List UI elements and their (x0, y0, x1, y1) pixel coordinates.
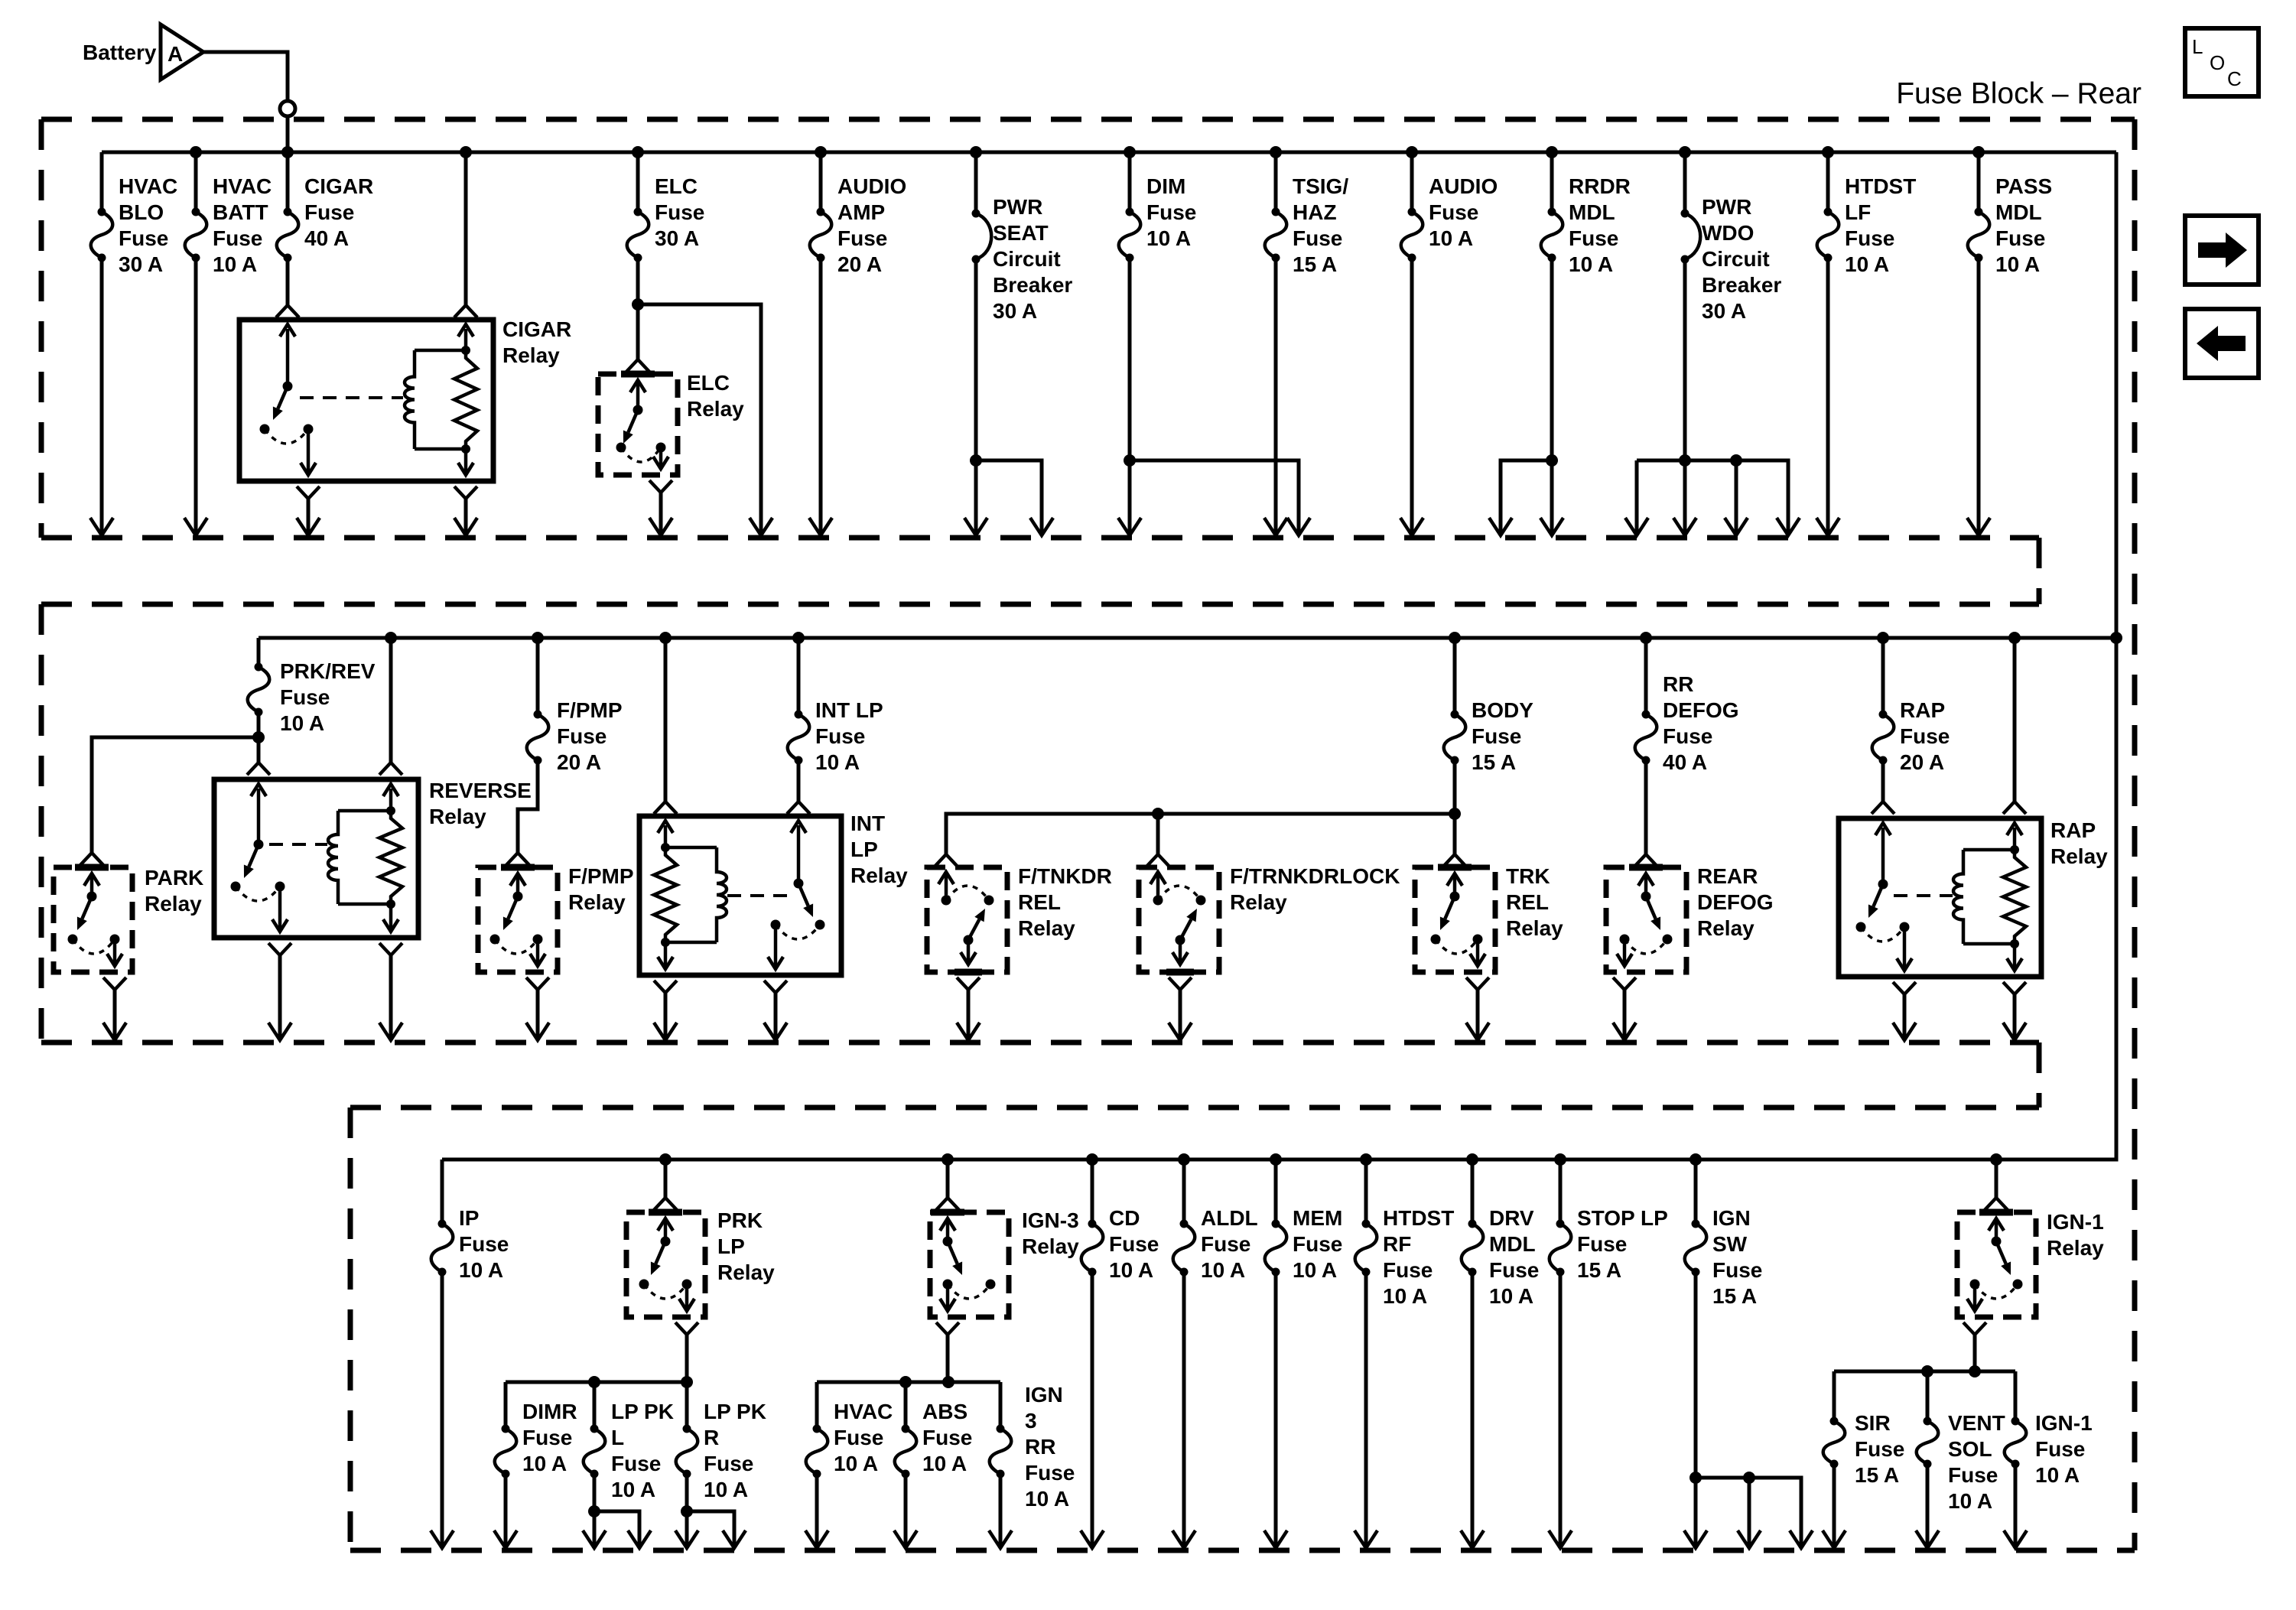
svg-text:15 A: 15 A (1577, 1258, 1621, 1282)
wire ELC branch to output (638, 304, 772, 535)
svg-text:Relay: Relay (429, 805, 486, 828)
svg-text:VENT: VENT (1948, 1411, 2005, 1435)
fuse DIM 10A (1118, 152, 1196, 535)
svg-text:MDL: MDL (1569, 200, 1615, 224)
wire PARK relay feed (80, 737, 259, 865)
svg-text:10 A: 10 A (815, 750, 860, 774)
svg-text:10 A: 10 A (1569, 252, 1613, 276)
svg-text:10 A: 10 A (1109, 1258, 1153, 1282)
fuse block border: step row1-row2 (2037, 538, 2042, 604)
circuit breaker PWR WDO 30A (1673, 152, 1781, 535)
svg-text:Fuse: Fuse (1293, 226, 1342, 250)
fuse BODY 15A (1444, 638, 1533, 854)
svg-text:HVAC: HVAC (119, 174, 177, 198)
wire REVERSE relay output left (268, 943, 291, 1040)
fuse HTDST LF 10A (1816, 152, 1916, 535)
svg-text:10 A: 10 A (1948, 1489, 1992, 1513)
svg-text:RRDR: RRDR (1569, 174, 1631, 198)
wire RAP relay output left (1893, 982, 1916, 1040)
svg-text:Relay: Relay (568, 890, 626, 914)
wire CIGAR relay output left (297, 486, 320, 535)
wire F/TNKDR REL output (957, 977, 980, 1040)
wire REVERSE relay right pin feed (379, 638, 402, 775)
wire CIGAR relay output right (454, 486, 477, 535)
svg-text:Fuse: Fuse (1146, 200, 1196, 224)
svg-text:HAZ: HAZ (1293, 200, 1337, 224)
svg-text:Relay: Relay (502, 343, 560, 367)
svg-text:3: 3 (1025, 1409, 1037, 1433)
legend next-page arrow (2185, 216, 2259, 285)
fuse ELC 30A (627, 152, 705, 359)
svg-text:Fuse: Fuse (1383, 1258, 1433, 1282)
svg-text:MDL: MDL (1995, 200, 2042, 224)
fuse block border: row1 bottom edge (41, 535, 2039, 541)
svg-text:F/TRNKDRLOCK: F/TRNKDRLOCK (1230, 864, 1400, 888)
svg-text:Fuse: Fuse (611, 1452, 661, 1475)
relay CIGAR (239, 317, 571, 481)
fuse block border: row1 left edge (39, 119, 44, 538)
fuse RRDR MDL 10A (1540, 152, 1631, 535)
svg-text:L: L (2192, 35, 2203, 58)
svg-text:Fuse: Fuse (1577, 1232, 1627, 1256)
svg-text:C: C (2227, 67, 2242, 90)
svg-text:CIGAR: CIGAR (304, 174, 373, 198)
fuse block border: row2 top edge (41, 602, 2039, 607)
svg-text:RAP: RAP (2050, 818, 2096, 842)
svg-text:10 A: 10 A (2035, 1463, 2080, 1487)
svg-text:Breaker: Breaker (993, 273, 1072, 297)
wire INT LP relay output left (654, 981, 677, 1040)
svg-text:PRK/REV: PRK/REV (280, 659, 376, 683)
svg-text:10 A: 10 A (1489, 1284, 1533, 1308)
svg-text:10 A: 10 A (213, 252, 257, 276)
svg-text:MDL: MDL (1489, 1232, 1536, 1256)
circuit breaker PWR SEAT 30A (964, 152, 1072, 535)
svg-text:REVERSE: REVERSE (429, 779, 532, 802)
svg-text:Fuse: Fuse (2035, 1437, 2085, 1461)
svg-text:10 A: 10 A (459, 1258, 503, 1282)
svg-text:Relay: Relay (2047, 1236, 2104, 1260)
svg-text:LP: LP (717, 1234, 745, 1258)
wire F/TRNKDRLOCK feed (1146, 814, 1169, 867)
svg-text:10 A: 10 A (280, 711, 324, 735)
svg-text:SOL: SOL (1948, 1437, 1992, 1461)
svg-text:Battery: Battery (83, 41, 157, 64)
fuse block border: row2 bottom edge (41, 1040, 2039, 1046)
fuse block border: row3 bottom edge (350, 1548, 2135, 1553)
relay PARK (54, 866, 203, 972)
legend LOC box (2185, 28, 2259, 96)
wire RRDR MDL branch (1489, 460, 1552, 535)
svg-text:10 A: 10 A (922, 1452, 967, 1475)
wire IGN SW branches (1696, 1472, 1813, 1548)
svg-text:10 A: 10 A (522, 1452, 567, 1475)
wire REAR DEFOG output (1613, 977, 1636, 1040)
wire IGN-3 output to ignition fuses (936, 1322, 959, 1382)
svg-text:30 A: 30 A (119, 252, 163, 276)
wire PRK LP output to lamp fuses (675, 1322, 698, 1382)
svg-text:LP: LP (850, 838, 878, 861)
svg-text:TSIG/: TSIG/ (1293, 174, 1348, 198)
svg-text:10 A: 10 A (1383, 1284, 1427, 1308)
svg-text:BLO: BLO (119, 200, 164, 224)
wire REVERSE relay output right (379, 943, 402, 1040)
svg-text:Fuse: Fuse (1489, 1258, 1539, 1282)
svg-text:MEM: MEM (1293, 1206, 1342, 1230)
svg-text:10 A: 10 A (834, 1452, 878, 1475)
wire BODY distribution to door relays (935, 808, 1455, 867)
svg-text:DEFOG: DEFOG (1697, 890, 1774, 914)
wire REVERSE relay feed (247, 763, 270, 775)
svg-text:INT: INT (850, 812, 885, 835)
fuse PASS MDL 10A (1967, 152, 2052, 535)
relay INT LP (639, 812, 908, 975)
wire RAP relay output right (2003, 982, 2026, 1040)
relay ELC (598, 359, 744, 475)
wire ignition distribution (817, 1376, 1000, 1388)
fuse VENT SOL 10A (1916, 1371, 2005, 1548)
svg-text:AUDIO: AUDIO (837, 174, 906, 198)
svg-text:Relay: Relay (145, 892, 202, 916)
fuse LP PK R 10A (675, 1382, 766, 1548)
wire IGN-1 distribution (1834, 1365, 2015, 1377)
svg-text:ELC: ELC (687, 371, 730, 395)
relay REVERSE (214, 779, 532, 938)
svg-text:Fuse: Fuse (304, 200, 354, 224)
wire DIM branch (1130, 460, 1310, 535)
svg-text:Fuse: Fuse (213, 226, 262, 250)
svg-text:IP: IP (459, 1206, 479, 1230)
wire INT LP relay output right (764, 981, 787, 1040)
svg-text:Fuse: Fuse (1712, 1258, 1762, 1282)
svg-text:AUDIO: AUDIO (1429, 174, 1498, 198)
relay IGN-3 (930, 1208, 1079, 1317)
relay PRK LP (626, 1208, 775, 1317)
svg-text:Fuse: Fuse (815, 724, 865, 748)
wire PRK LP relay feed (654, 1160, 677, 1210)
svg-text:PASS: PASS (1995, 174, 2052, 198)
svg-text:Fuse: Fuse (1109, 1232, 1159, 1256)
svg-text:15 A: 15 A (1855, 1463, 1899, 1487)
wire row1 bus (102, 151, 2116, 154)
fuse ALDL 10A (1172, 1160, 1258, 1548)
fuse IP 10A (431, 1160, 509, 1548)
svg-text:LP PK: LP PK (611, 1400, 674, 1423)
svg-text:Fuse: Fuse (1995, 226, 2045, 250)
svg-text:PRK: PRK (717, 1208, 763, 1232)
fuse HVAC BLO 30A (90, 152, 177, 535)
svg-text:R: R (704, 1426, 719, 1449)
svg-text:BATT: BATT (213, 200, 268, 224)
svg-text:10 A: 10 A (1995, 252, 2040, 276)
fuse F/PMP 20A (506, 638, 623, 865)
svg-text:SIR: SIR (1855, 1411, 1891, 1435)
fuse IGN SW 15A (1684, 1160, 1762, 1548)
relay RAP (1839, 818, 2108, 977)
fuse RR DEFOG 40A (1634, 638, 1739, 867)
svg-text:Fuse: Fuse (1569, 226, 1618, 250)
fuse STOP LP 15A (1549, 1160, 1668, 1548)
svg-text:HVAC: HVAC (213, 174, 272, 198)
svg-text:IGN-1: IGN-1 (2035, 1411, 2093, 1435)
svg-text:30 A: 30 A (655, 226, 699, 250)
svg-text:IGN-1: IGN-1 (2047, 1210, 2104, 1234)
wire RAP relay right pin feed (2003, 638, 2026, 814)
svg-text:DIM: DIM (1146, 174, 1185, 198)
svg-text:Circuit: Circuit (1702, 247, 1770, 271)
svg-text:Fuse: Fuse (1025, 1461, 1075, 1485)
fuse ABS 10A (894, 1382, 972, 1548)
svg-text:10 A: 10 A (1429, 226, 1473, 250)
svg-text:30 A: 30 A (993, 299, 1037, 323)
wire F/PMP relay output (526, 977, 549, 1040)
fuse RAP 20A (1872, 638, 1950, 814)
fuse block border: row2 left edge (39, 604, 44, 1042)
svg-text:TRK: TRK (1506, 864, 1550, 888)
wire feed row1 to row3 right side (442, 152, 2116, 1160)
svg-text:Relay: Relay (1230, 890, 1287, 914)
relay F/PMP (478, 864, 634, 972)
svg-text:REAR: REAR (1697, 864, 1758, 888)
relay TRK REL (1415, 854, 1563, 972)
svg-text:Relay: Relay (717, 1260, 775, 1284)
svg-text:Relay: Relay (687, 397, 744, 421)
svg-text:A: A (167, 42, 183, 66)
wire LP PK L branch (594, 1511, 651, 1548)
legend prev-page arrow (2185, 309, 2259, 378)
svg-text:Fuse: Fuse (459, 1232, 509, 1256)
svg-text:INT LP: INT LP (815, 698, 883, 722)
svg-text:O: O (2210, 51, 2225, 74)
wire ELC relay output (649, 480, 672, 535)
fuse IGN-1 10A (2004, 1371, 2093, 1548)
svg-text:20 A: 20 A (557, 750, 601, 774)
svg-text:F/PMP: F/PMP (568, 864, 634, 888)
wire IGN-1 relay feed (1985, 1160, 2008, 1210)
svg-text:10 A: 10 A (1146, 226, 1191, 250)
fuse LP PK L 10A (583, 1382, 674, 1548)
svg-text:HTDST: HTDST (1383, 1206, 1454, 1230)
fuse TSIG/HAZ 15A (1264, 152, 1348, 535)
svg-text:ELC: ELC (655, 174, 698, 198)
svg-text:F/PMP: F/PMP (557, 698, 623, 722)
fuse PRK/REV 10A (248, 638, 376, 763)
svg-text:Fuse: Fuse (1855, 1437, 1904, 1461)
fuse block border: right edge (2132, 119, 2138, 1550)
svg-text:Breaker: Breaker (1702, 273, 1781, 297)
svg-text:20 A: 20 A (837, 252, 882, 276)
svg-text:Relay: Relay (2050, 844, 2108, 868)
fuse CIGAR 40A (276, 152, 373, 317)
svg-text:DRV: DRV (1489, 1206, 1534, 1230)
battery connector triangle A (161, 24, 203, 80)
fuse HVAC 10A (805, 1382, 893, 1548)
svg-text:PARK: PARK (145, 866, 203, 890)
fuse MEM 10A (1264, 1160, 1342, 1548)
wire INT LP relay left pin feed (654, 638, 677, 814)
svg-text:ALDL: ALDL (1201, 1206, 1258, 1230)
svg-text:40 A: 40 A (304, 226, 349, 250)
svg-text:Fuse: Fuse (1948, 1463, 1998, 1487)
svg-text:Fuse: Fuse (1845, 226, 1894, 250)
svg-text:REL: REL (1506, 890, 1549, 914)
wire PWR SEAT branch (976, 460, 1053, 535)
wire PWR WDO branches (1625, 454, 1800, 535)
svg-text:PWR: PWR (993, 195, 1042, 219)
wire PARK relay output (103, 977, 126, 1040)
svg-text:ABS: ABS (922, 1400, 968, 1423)
svg-text:Fuse: Fuse (1293, 1232, 1342, 1256)
svg-text:Fuse: Fuse (557, 724, 607, 748)
svg-text:Fuse: Fuse (522, 1426, 572, 1449)
svg-text:Relay: Relay (850, 864, 908, 887)
svg-text:RF: RF (1383, 1232, 1411, 1256)
svg-text:CIGAR: CIGAR (502, 317, 571, 341)
svg-text:LP PK: LP PK (704, 1400, 766, 1423)
svg-text:30 A: 30 A (1702, 299, 1746, 323)
svg-text:20 A: 20 A (1900, 750, 1944, 774)
relay F/TNKDR REL (927, 864, 1112, 972)
svg-text:10 A: 10 A (1293, 1258, 1337, 1282)
wire CIGAR relay feed right pin (454, 152, 477, 317)
fuse block border: step row2-row3 (2037, 1042, 2042, 1107)
svg-text:CD: CD (1109, 1206, 1140, 1230)
svg-text:Relay: Relay (1697, 916, 1755, 940)
svg-text:BODY: BODY (1472, 698, 1533, 722)
fuse INT LP 10A (787, 638, 883, 814)
svg-text:10 A: 10 A (1845, 252, 1889, 276)
svg-text:Fuse: Fuse (1429, 200, 1478, 224)
svg-text:RAP: RAP (1900, 698, 1945, 722)
svg-text:Fuse: Fuse (1663, 724, 1712, 748)
fuse SIR 15A (1823, 1371, 1904, 1548)
svg-text:15 A: 15 A (1712, 1284, 1757, 1308)
fuse HTDST RF 10A (1355, 1160, 1454, 1548)
wire row3 bus junction dots (659, 1153, 2002, 1166)
svg-text:Circuit: Circuit (993, 247, 1061, 271)
svg-text:F/TNKDR: F/TNKDR (1018, 864, 1112, 888)
wire node to row1 bus (286, 116, 290, 152)
relay F/TRNKDRLOCK (1139, 864, 1400, 972)
svg-text:SEAT: SEAT (993, 221, 1049, 245)
svg-text:Relay: Relay (1018, 916, 1075, 940)
relay REAR DEFOG (1606, 864, 1774, 972)
svg-text:Fuse Block – Rear: Fuse Block – Rear (1896, 77, 2142, 110)
wire lamp distribution (506, 1376, 693, 1388)
wire row2 bus (259, 636, 2116, 640)
svg-text:STOP LP: STOP LP (1577, 1206, 1668, 1230)
svg-text:IGN: IGN (1712, 1206, 1751, 1230)
svg-text:Fuse: Fuse (837, 226, 887, 250)
svg-text:WDO: WDO (1702, 221, 1754, 245)
svg-text:LF: LF (1845, 200, 1871, 224)
wire battery to node (203, 52, 288, 101)
fuse block border: row1 top edge (41, 117, 2135, 122)
svg-text:SW: SW (1712, 1232, 1748, 1256)
fuse CD 10A (1081, 1160, 1159, 1548)
fuse IGN 3 RR 10A (989, 1382, 1075, 1548)
svg-text:HVAC: HVAC (834, 1400, 893, 1423)
fuse DRV MDL 10A (1461, 1160, 1539, 1548)
svg-text:Relay: Relay (1506, 916, 1563, 940)
svg-text:IGN-3: IGN-3 (1022, 1208, 1079, 1232)
svg-text:Fuse: Fuse (834, 1426, 883, 1449)
svg-text:10 A: 10 A (1025, 1487, 1069, 1511)
fuse block border: row3 top edge (350, 1105, 2039, 1111)
svg-text:RR: RR (1663, 672, 1693, 696)
wire TRK REL output (1466, 977, 1489, 1040)
fuse AUDIO AMP 20A (809, 152, 906, 535)
svg-text:Fuse: Fuse (1900, 724, 1950, 748)
svg-text:RR: RR (1025, 1435, 1055, 1459)
svg-text:IGN: IGN (1025, 1383, 1063, 1407)
svg-text:REL: REL (1018, 890, 1061, 914)
fuse AUDIO 10A (1400, 152, 1498, 535)
svg-text:15 A: 15 A (1293, 252, 1337, 276)
svg-text:Relay: Relay (1022, 1234, 1079, 1258)
svg-text:Fuse: Fuse (922, 1426, 972, 1449)
svg-text:HTDST: HTDST (1845, 174, 1916, 198)
node battery splice (280, 101, 295, 116)
svg-text:Fuse: Fuse (1201, 1232, 1250, 1256)
svg-text:15 A: 15 A (1472, 750, 1516, 774)
wire LP PK R branch (687, 1511, 746, 1548)
svg-text:10 A: 10 A (1201, 1258, 1245, 1282)
svg-text:40 A: 40 A (1663, 750, 1707, 774)
svg-text:L: L (611, 1426, 624, 1449)
wire IGN-3 relay feed (936, 1160, 959, 1210)
svg-text:Fuse: Fuse (280, 685, 330, 709)
svg-text:DIMR: DIMR (522, 1400, 577, 1423)
fuse block border: row3 left edge (348, 1107, 353, 1550)
svg-text:DEFOG: DEFOG (1663, 698, 1739, 722)
svg-text:10 A: 10 A (704, 1478, 748, 1501)
svg-text:Fuse: Fuse (119, 226, 168, 250)
svg-text:Fuse: Fuse (704, 1452, 753, 1475)
svg-text:AMP: AMP (837, 200, 885, 224)
svg-text:Fuse: Fuse (1472, 724, 1521, 748)
svg-text:10 A: 10 A (611, 1478, 655, 1501)
fuse HVAC BATT 10A (184, 152, 272, 535)
svg-text:Fuse: Fuse (655, 200, 704, 224)
wire IGN-1 output to fuses (1963, 1322, 1986, 1371)
svg-text:PWR: PWR (1702, 195, 1751, 219)
fuse DIMR 10A (494, 1382, 577, 1548)
wire F/TRNKDRLOCK output (1169, 977, 1192, 1040)
relay IGN-1 (1957, 1210, 2104, 1317)
